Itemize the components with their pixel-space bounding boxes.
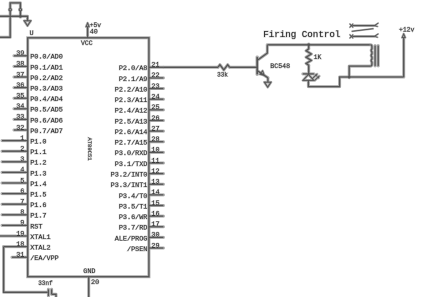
svg-text:P3.0/RXD: P3.0/RXD	[115, 150, 148, 158]
svg-text:P3.7/RD: P3.7/RD	[119, 225, 148, 233]
svg-text:26: 26	[151, 115, 159, 123]
svg-text:28: 28	[151, 136, 159, 144]
svg-text:10: 10	[151, 147, 159, 155]
svg-text:+12v: +12v	[399, 27, 415, 34]
svg-text:P2.6/A14: P2.6/A14	[115, 129, 148, 137]
svg-text:P3.1/TXD: P3.1/TXD	[115, 161, 148, 169]
svg-text:/PSEN: /PSEN	[127, 246, 147, 254]
svg-text:P3.5/T1: P3.5/T1	[119, 203, 148, 211]
svg-text:21: 21	[151, 62, 159, 70]
svg-text:P0.4/AD4: P0.4/AD4	[30, 96, 63, 104]
svg-text:P2.2/A10: P2.2/A10	[115, 86, 148, 94]
svg-text:+5v: +5v	[90, 22, 102, 29]
svg-text:P2.1/A9: P2.1/A9	[119, 76, 148, 84]
svg-text:11: 11	[151, 157, 159, 165]
svg-text:9: 9	[20, 220, 24, 228]
svg-text:P2.3/A11: P2.3/A11	[115, 97, 148, 105]
svg-text:GND: GND	[83, 268, 95, 276]
svg-text:P0.5/AD5: P0.5/AD5	[30, 107, 63, 115]
svg-text:18: 18	[16, 241, 24, 249]
svg-text:P1.7: P1.7	[30, 213, 46, 221]
svg-text:2: 2	[20, 146, 24, 154]
svg-text:23: 23	[151, 83, 159, 91]
svg-text:8: 8	[20, 209, 24, 217]
svg-text:XTAL1: XTAL1	[30, 234, 50, 242]
svg-text:13: 13	[151, 179, 159, 187]
svg-text:P3.4/T0: P3.4/T0	[119, 193, 148, 201]
svg-text:VCC: VCC	[81, 40, 93, 47]
svg-text:P0.6/AD6: P0.6/AD6	[30, 117, 63, 125]
svg-text:32: 32	[16, 124, 24, 132]
svg-text:P1.6: P1.6	[30, 202, 46, 210]
svg-text:P1.0: P1.0	[30, 139, 46, 147]
svg-text:33k: 33k	[217, 71, 228, 78]
svg-text:16: 16	[151, 210, 159, 218]
svg-text:P0.1/AD1: P0.1/AD1	[30, 64, 63, 72]
svg-text:Firing Control: Firing Control	[263, 29, 340, 40]
svg-text:P0.7/AD7: P0.7/AD7	[30, 128, 63, 136]
svg-text:38: 38	[16, 61, 24, 69]
svg-text:P2.7/A15: P2.7/A15	[115, 140, 148, 148]
svg-text:35: 35	[16, 93, 24, 101]
svg-text:/EA/VPP: /EA/VPP	[30, 255, 59, 263]
svg-text:P1.5: P1.5	[30, 192, 46, 200]
svg-text:33nf: 33nf	[38, 280, 53, 287]
svg-text:30: 30	[151, 232, 159, 240]
svg-text:29: 29	[151, 242, 159, 250]
svg-text:P1.3: P1.3	[30, 170, 46, 178]
svg-text:RST: RST	[30, 223, 42, 231]
svg-text:7: 7	[20, 199, 24, 207]
svg-text:20: 20	[91, 279, 99, 287]
svg-text:14: 14	[151, 189, 159, 197]
svg-text:3: 3	[20, 156, 24, 164]
svg-text:36: 36	[16, 82, 24, 90]
svg-text:P2.4/A12: P2.4/A12	[115, 108, 148, 116]
svg-text:37: 37	[16, 71, 24, 79]
svg-text:P1.1: P1.1	[30, 149, 46, 157]
svg-text:12: 12	[151, 168, 159, 176]
svg-text:33: 33	[16, 114, 24, 122]
svg-text:1: 1	[20, 135, 24, 143]
svg-text:P2.5/A13: P2.5/A13	[115, 118, 148, 126]
svg-text:P1.2: P1.2	[30, 160, 46, 168]
svg-text:17: 17	[151, 221, 159, 229]
svg-text:34: 34	[16, 103, 24, 111]
svg-text:39: 39	[16, 50, 24, 58]
svg-text:P0.2/AD2: P0.2/AD2	[30, 75, 63, 83]
svg-text:15: 15	[151, 200, 159, 208]
svg-text:P2.0/A8: P2.0/A8	[119, 65, 148, 73]
svg-text:31: 31	[16, 252, 24, 260]
svg-text:22: 22	[151, 72, 159, 80]
svg-text:XTAL2: XTAL2	[30, 245, 50, 253]
svg-text:AT89C51: AT89C51	[86, 137, 93, 161]
svg-text:P1.4: P1.4	[30, 181, 46, 189]
svg-text:P3.2/INT0: P3.2/INT0	[111, 172, 148, 180]
svg-text:P0.0/AD0: P0.0/AD0	[30, 54, 63, 62]
svg-text:P0.3/AD3: P0.3/AD3	[30, 86, 63, 94]
svg-text:6: 6	[20, 188, 24, 196]
svg-text:40: 40	[90, 29, 98, 37]
svg-text:24: 24	[151, 93, 159, 101]
svg-text:25: 25	[151, 104, 159, 112]
svg-text:P3.6/WR: P3.6/WR	[119, 214, 148, 222]
svg-text:BC548: BC548	[270, 63, 290, 70]
svg-text:4: 4	[20, 167, 24, 175]
svg-text:27: 27	[151, 125, 159, 133]
svg-text:1K: 1K	[314, 54, 322, 61]
svg-text:ALE/PROG: ALE/PROG	[115, 235, 148, 243]
svg-text:5: 5	[20, 177, 24, 185]
svg-text:U: U	[30, 30, 34, 38]
svg-text:P3.3/INT1: P3.3/INT1	[111, 182, 148, 190]
svg-text:19: 19	[16, 230, 24, 238]
